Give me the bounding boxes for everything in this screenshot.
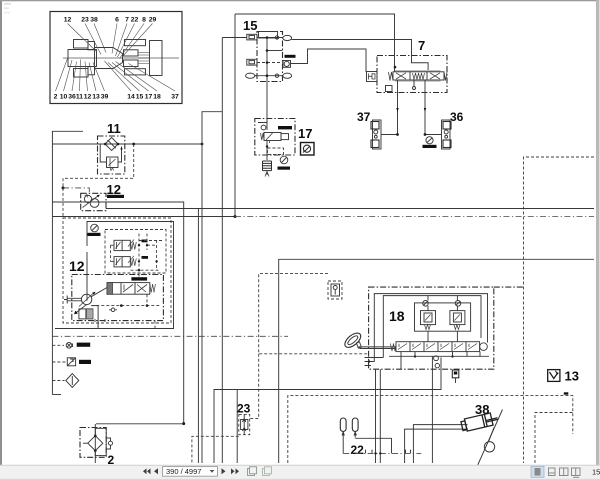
window left border (0, 0, 2, 480)
icon box beside 17 (301, 143, 315, 156)
pressure reducing valve 17 (255, 119, 295, 161)
valve 23 (239, 414, 250, 434)
svg-text:29: 29 (149, 17, 157, 24)
window top border (0, 0, 600, 1)
svg-text:12: 12 (84, 94, 92, 101)
block 12 upper dashed sub-box (105, 230, 166, 274)
block 12 gauge (88, 224, 101, 236)
block 12 solid frame (87, 222, 174, 329)
svg-text:13: 13 (565, 369, 579, 384)
legend row 2 (52, 361, 66, 363)
svg-text:390 / 4997: 390 / 4997 (166, 467, 201, 476)
inset callout numbers bottom (54, 94, 179, 101)
svg-text:7: 7 (418, 38, 425, 53)
block 18 inner frame (374, 294, 487, 362)
pressure valve P1 (421, 306, 436, 330)
wire valve7 to check 36 (425, 93, 442, 135)
wire vertical x=237.5 (236, 390, 238, 464)
svg-text:37: 37 (357, 110, 371, 124)
svg-text:12: 12 (107, 182, 121, 197)
gauge below 17 (278, 156, 291, 170)
nav first button (143, 468, 151, 474)
spool valve 18 (390, 342, 487, 352)
wire: vertical x=202 (202, 112, 222, 463)
block 12 left port (64, 296, 82, 304)
inset centerline (63, 57, 179, 59)
svg-text:17: 17 (145, 94, 153, 101)
wire: vertical x=198.4 (197, 209, 199, 464)
svg-text:14: 14 (127, 94, 135, 101)
svg-text:11: 11 (107, 121, 121, 136)
svg-text:8: 8 (142, 17, 146, 24)
page input box (163, 467, 218, 477)
check valve stack 37 (371, 120, 381, 149)
svg-text:23: 23 (237, 402, 251, 416)
faint page header marks (4, 3, 11, 5)
svg-text:7: 7 (125, 17, 129, 24)
legend row 1 (52, 344, 64, 346)
wire bottom frame y=389.5 (214, 358, 441, 464)
valve block 15 (246, 32, 296, 82)
inset valve cross-section (68, 40, 162, 78)
wires below 18 (375, 369, 377, 463)
pressure valve P2 (450, 306, 465, 330)
riser to box 23 (250, 354, 259, 419)
directional valve 7 (367, 56, 448, 93)
wire filter2 to rail (96, 423, 184, 425)
nav next button (222, 468, 226, 474)
block 12 dashed drain lines (91, 305, 160, 307)
wire: valve15 reducer to valve7 pilot (291, 49, 367, 72)
svg-text:15: 15 (592, 468, 600, 477)
svg-text:13: 13 (92, 94, 100, 101)
wire: main pressure line y=208.5 (106, 208, 594, 210)
steering wheel (342, 330, 363, 350)
steering valve block 18 dash-dot box (369, 287, 494, 369)
wire: top feed to valve 7 pilot cap (235, 14, 395, 72)
block 18 sub box (415, 303, 471, 331)
nav last button (231, 468, 239, 474)
window right scrollbar strip (596, 0, 600, 466)
svg-text:6: 6 (115, 17, 119, 24)
svg-text:36: 36 (68, 94, 76, 101)
dashed bypass from filter line (63, 144, 134, 188)
wire: filter supply line y=144 (52, 143, 202, 145)
dash boundary right (524, 157, 595, 463)
block 18 bottom ports (434, 356, 439, 361)
inset leader lines (56, 24, 176, 92)
svg-text:37: 37 (171, 94, 179, 101)
svg-text:22: 22 (351, 443, 365, 457)
svg-text:23: 23 (81, 17, 89, 24)
toolbar background (0, 465, 600, 480)
block 12 dashed interconnects (111, 245, 115, 261)
icon box 13 (548, 370, 560, 382)
block 12 outer dashed box (63, 218, 171, 323)
wire: vertical x=222.3 (221, 38, 223, 464)
inset overview figure frame (50, 12, 182, 104)
page style icons (248, 467, 257, 476)
wire: valve15 to valve7 spool (292, 40, 429, 72)
nav prev button (154, 468, 158, 474)
svg-text:2: 2 (54, 94, 58, 101)
drain symbols (423, 301, 461, 307)
dashed drop left (192, 436, 239, 463)
wire: vertical x=184.5 (183, 202, 185, 424)
lever and pivot (478, 410, 503, 466)
block 18 left ports (365, 358, 384, 366)
svg-text:10: 10 (60, 94, 68, 101)
lower valve in block 12 (74, 305, 93, 319)
svg-text:17: 17 (298, 126, 312, 141)
right view icons (531, 466, 544, 477)
dashed enclosure bottom (288, 396, 573, 463)
svg-text:36: 36 (450, 110, 464, 124)
small sensor box (328, 281, 342, 299)
check valve stack 36 (442, 120, 452, 149)
spring below 17 (263, 161, 272, 171)
relief valve A (114, 240, 136, 251)
svg-text:11: 11 (76, 94, 83, 101)
svg-text:22: 22 (131, 17, 139, 24)
svg-text:18: 18 (389, 308, 405, 324)
wire: big frame top y=259.3 (279, 259, 594, 463)
filter 2 (80, 424, 113, 463)
wire valve7 to check 37 (381, 93, 398, 135)
inset callout numbers top (64, 17, 157, 24)
wire 22 rail (355, 438, 391, 453)
filter 11 (98, 136, 125, 174)
svg-text:18: 18 (153, 94, 161, 101)
accumulators 22 (340, 418, 358, 432)
small component below 18 (452, 370, 459, 383)
pump circle in block 12 (79, 288, 107, 307)
relief valve B (114, 256, 136, 267)
hydraulic cylinder 38 (461, 412, 499, 432)
svg-text:12: 12 (64, 17, 72, 24)
wire: left rail (52, 131, 83, 394)
dash boundary around steering section (259, 274, 369, 354)
svg-text:38: 38 (90, 17, 98, 24)
spool valve in block 12 (131, 277, 147, 280)
wire: valve15 port to left rail (222, 37, 247, 39)
wire: valve15 down to valve17 (266, 82, 268, 125)
svg-text:15: 15 (243, 18, 257, 33)
wire: pump line y=202 (52, 201, 183, 203)
wire: tank line y=216.5 (52, 216, 235, 218)
boundary dash-dot line y=336.3 (52, 335, 288, 337)
svg-text:15: 15 (136, 94, 144, 101)
svg-text:12: 12 (69, 258, 85, 274)
boundary dash-dot line y=216.5 right (235, 216, 594, 218)
legend row 3 (52, 380, 64, 382)
svg-text:39: 39 (101, 94, 109, 101)
block 12 lower dash-dot sub-box (72, 275, 164, 321)
pump unit 12 (81, 193, 106, 210)
gauge near 36 (423, 137, 437, 148)
